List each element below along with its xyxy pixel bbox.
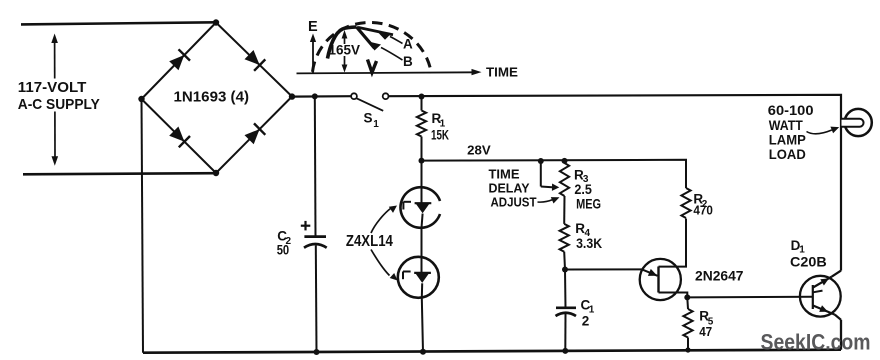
label C1 2 [581, 297, 595, 328]
svg-text:SeekIC.com: SeekIC.com [761, 330, 871, 355]
label S1 [364, 111, 380, 130]
node R3 top [562, 158, 568, 164]
svg-text:C20B: C20B [790, 254, 827, 269]
svg-text:2N2647: 2N2647 [695, 268, 744, 284]
node bridge left vertex [138, 96, 144, 102]
resistor R5 [683, 297, 692, 350]
resistor R4 [560, 224, 569, 252]
SCR D1 C20B [800, 271, 841, 320]
node bridge bottom vertex [213, 170, 219, 176]
wire top rail left segment [292, 95, 351, 98]
svg-text:1: 1 [373, 119, 379, 130]
unijunction transistor 2N2647 [640, 219, 688, 301]
wire AC top [21, 22, 216, 24]
label TIME DELAY ADJUST [489, 167, 537, 209]
wire AC bottom [23, 173, 216, 174]
waveform TIME axis [297, 69, 482, 75]
svg-text:ADJUST: ADJUST [491, 195, 537, 209]
wire 28V rail [422, 160, 687, 188]
svg-text:MEG: MEG [576, 197, 601, 212]
label R3 2.5 MEG [574, 167, 601, 211]
wire zener branch upper [421, 161, 423, 188]
waveform V notch [368, 60, 377, 73]
waveform line B [357, 27, 375, 48]
svg-text:47: 47 [699, 324, 712, 339]
svg-text:117-VOLT: 117-VOLT [18, 79, 87, 96]
wire top rail right segment with corner [388, 95, 841, 271]
switch S1 [351, 93, 388, 111]
node C2 bottom rail [314, 349, 320, 355]
resistor R2 [681, 188, 690, 218]
node R1 top [419, 94, 425, 100]
wire zener branch lower [422, 298, 423, 352]
node R5 bottom rail [685, 347, 690, 352]
wire gate [687, 296, 813, 299]
diode bottom-left of bridge [169, 127, 190, 148]
svg-text:TIME: TIME [489, 167, 520, 181]
wire C1 branch lower [564, 314, 566, 351]
zener D Z4XL14 upper [400, 187, 440, 228]
leader arrow to upper zener [371, 206, 397, 234]
lamp load [842, 109, 872, 136]
plus sign C2 [301, 221, 311, 231]
zener D Z4XL14 lower [398, 257, 439, 298]
svg-text:470: 470 [693, 203, 713, 218]
bridge rectifier 1N1693 (4) diamond [142, 23, 293, 174]
node bridge right vertex [289, 93, 295, 99]
leader arrow B [369, 42, 403, 61]
node bridge top vertex [213, 19, 219, 25]
svg-text:3.3K: 3.3K [576, 236, 602, 251]
svg-text:DELAY: DELAY [489, 181, 531, 195]
capacitor C2 [304, 237, 327, 248]
node C2 tap [312, 93, 318, 99]
leader arrow to lamp [807, 127, 840, 134]
svg-text:LOAD: LOAD [769, 146, 806, 162]
svg-text:1: 1 [589, 305, 595, 316]
node zener bottom rail [420, 349, 426, 355]
svg-text:1N1693 (4): 1N1693 (4) [174, 89, 250, 106]
resistor R3 [560, 161, 569, 196]
waveform line A [358, 27, 393, 34]
wire R3 to R4 [563, 196, 565, 224]
diode bottom-right of bridge [245, 123, 266, 144]
svg-text:WATT: WATT [769, 117, 803, 133]
svg-text:S: S [364, 111, 373, 126]
node R4 C1 emitter junction [562, 267, 568, 273]
node wiper tap [538, 158, 544, 164]
wire C2 branch upper [314, 96, 317, 236]
diode top-left of bridge [169, 49, 190, 70]
svg-text:A-C SUPPLY: A-C SUPPLY [18, 96, 100, 113]
leader arrow A [378, 32, 403, 44]
label R5 47 [699, 309, 714, 339]
label C2 50 [277, 229, 292, 258]
svg-text:TIME: TIME [486, 64, 518, 79]
wire R4 to node [563, 252, 566, 270]
svg-text:165V: 165V [329, 43, 361, 58]
wire C2 branch lower [315, 246, 318, 353]
label 60-100 WATT LAMP LOAD [768, 102, 814, 162]
svg-text:A: A [403, 37, 413, 52]
svg-text:2: 2 [582, 314, 590, 329]
svg-text:60-100: 60-100 [768, 102, 814, 118]
svg-text:E: E [308, 19, 318, 35]
117-VOLT A-C SUPPLY double arrow [51, 34, 58, 166]
potentiometer wiper arm [541, 161, 560, 191]
node C1 bottom rail [562, 348, 568, 354]
svg-text:28V: 28V [467, 143, 491, 158]
capacitor C1 [556, 308, 577, 316]
wire right rail lower [840, 320, 842, 350]
label R4 3.3K [575, 221, 602, 251]
165V double arrow [342, 30, 348, 73]
node 28V [419, 158, 425, 164]
diode top-right of bridge [245, 50, 266, 71]
label R2 470 [693, 191, 713, 217]
wire left vertical drop [142, 99, 144, 353]
svg-text:50: 50 [277, 243, 290, 258]
waveform dashed half-sine [313, 23, 432, 72]
wire C1 branch upper [564, 270, 567, 308]
label 117-VOLT A-C SUPPLY [18, 79, 100, 113]
resistor R1 [417, 97, 426, 161]
wire between zeners [421, 228, 423, 257]
label R1 15K [431, 111, 449, 143]
label D1 C20B [790, 238, 827, 270]
wire bottom rail [143, 350, 841, 353]
node B1 junction [684, 294, 690, 300]
svg-text:2.5: 2.5 [574, 182, 592, 197]
svg-text:15K: 15K [431, 127, 449, 142]
waveform solid curve with plateau [328, 27, 357, 59]
svg-text:B: B [403, 54, 413, 69]
leader arrow from ADJUST [538, 197, 560, 203]
wire emitter [565, 268, 642, 270]
waveform E axis [310, 34, 316, 73]
svg-text:Z4XL14: Z4XL14 [346, 233, 393, 250]
leader arrow to lower zener [371, 250, 398, 281]
